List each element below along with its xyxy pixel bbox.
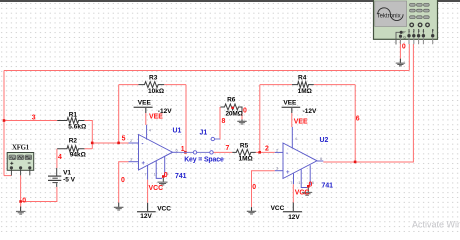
svg-text:5.6kΩ: 5.6kΩ [68, 123, 86, 130]
svg-text:VCC: VCC [271, 205, 285, 212]
svg-text:20MΩ: 20MΩ [226, 110, 243, 117]
VEE supply U1 [134, 99, 173, 125]
svg-text:10kΩ: 10kΩ [148, 88, 164, 95]
ground at R6 [237, 119, 246, 124]
svg-text:R2: R2 [69, 137, 78, 144]
svg-text:Activate Win: Activate Win [412, 220, 460, 230]
svg-text:7: 7 [226, 145, 230, 152]
node label 2 [265, 145, 269, 152]
wire R4 horizontal [260, 84, 355, 86]
wire XFG1 common to ground [20, 175, 22, 201]
wire R3 left drop to node 5 [118, 85, 120, 143]
wire U1 plus input to ground [119, 162, 129, 203]
ground under XFG1 [16, 203, 25, 214]
node label 4 [58, 154, 62, 161]
junction node 2 [258, 151, 261, 154]
wire R3 right drop to node 1 [185, 85, 187, 153]
watermark [412, 220, 460, 230]
svg-text:U2: U2 [320, 137, 329, 144]
node label 3 [32, 114, 36, 121]
svg-text:VCC: VCC [295, 190, 310, 197]
junction on R6 left [231, 107, 233, 109]
svg-text:8: 8 [222, 118, 226, 125]
ground under U2 plus [247, 207, 256, 214]
wire R5 to node 2 [256, 151, 275, 153]
wire U2 output to scope ch2 [323, 44, 413, 162]
VCC supply U2 [271, 184, 310, 221]
svg-text:VEE: VEE [294, 119, 308, 126]
wire R6 horizontal [241, 112, 243, 120]
svg-text:0: 0 [309, 182, 313, 189]
op-amp U1 pin numbers [130, 128, 179, 177]
node label 7 [226, 145, 230, 152]
wire R2 to V1 [56, 149, 58, 168]
node label 0 at R6 [243, 107, 247, 114]
wire U2 plus to ground [252, 171, 275, 207]
svg-text:741: 741 [175, 173, 187, 180]
top toolbar edge [0, 0, 460, 2]
svg-text:3: 3 [418, 29, 420, 33]
wire node 7 switch to R5 [213, 151, 232, 153]
VEE supply U2 [282, 99, 317, 127]
svg-text:5: 5 [122, 136, 126, 143]
node label 0 at XFG1 [22, 198, 26, 205]
label 741 U2 [322, 183, 334, 190]
svg-text:+: + [142, 161, 146, 167]
svg-text:2: 2 [413, 29, 415, 33]
svg-text:3: 3 [32, 114, 36, 121]
wire R6 left drop to switch [215, 107, 220, 139]
svg-text:12V: 12V [288, 214, 300, 221]
oscilloscope XSC1 [374, 0, 438, 45]
wire R3 top horizontal [119, 84, 186, 86]
battery V1 [48, 168, 76, 187]
switch J1 [179, 130, 224, 164]
wire scope ground [399, 39, 401, 58]
VCC supply U1 [137, 180, 171, 221]
node label 6 [356, 116, 360, 123]
node label 8 [222, 118, 226, 125]
svg-text:R1: R1 [69, 111, 78, 118]
svg-text:VCC: VCC [157, 205, 171, 212]
svg-text:Key = Space: Key = Space [184, 157, 224, 164]
node label 0 at U1 plus [121, 177, 125, 184]
label U2 [320, 137, 329, 144]
junction node 6 [354, 161, 357, 164]
svg-text:741: 741 [322, 183, 334, 190]
svg-text:U1: U1 [173, 128, 182, 135]
wire R4 right drop to node 6 [354, 85, 356, 162]
svg-text:VEE: VEE [283, 99, 297, 106]
function generator XFG1 [7, 144, 34, 175]
svg-text:VEE: VEE [149, 114, 163, 121]
U2 offset ground [302, 182, 312, 196]
svg-text:-5 V: -5 V [63, 176, 76, 183]
svg-text:R3: R3 [149, 75, 158, 82]
svg-text:1MΩ: 1MΩ [298, 88, 312, 95]
op-amp U1 [129, 125, 179, 180]
wire V1 bottom [21, 187, 57, 202]
wire XFG1 plus terminal [4, 175, 11, 177]
svg-text:1: 1 [408, 29, 410, 33]
svg-text:0: 0 [121, 177, 125, 184]
junction node 0 bottom [19, 200, 22, 203]
svg-text:0: 0 [243, 107, 247, 114]
label U1 [173, 128, 182, 135]
svg-text:R6: R6 [227, 96, 236, 103]
svg-text:XFG1: XFG1 [12, 144, 30, 151]
svg-text:VCC: VCC [149, 185, 164, 192]
svg-text:4: 4 [423, 29, 425, 33]
resistor R2 [57, 137, 86, 158]
svg-text:-: - [286, 151, 288, 157]
svg-text:0: 0 [402, 43, 406, 50]
svg-text:-12V: -12V [303, 108, 317, 115]
wire net 3 left vertical [3, 71, 5, 176]
op-amp U2 pin numbers [276, 136, 323, 185]
resistor R6 [220, 96, 242, 117]
svg-text:-: - [142, 142, 144, 148]
wire R1 right corner [84, 121, 92, 149]
svg-text:+: + [286, 170, 290, 176]
junction node 1 [184, 151, 187, 154]
svg-text:6: 6 [356, 116, 360, 123]
svg-text:R4: R4 [298, 75, 307, 82]
wire node 5 horizontal [92, 142, 128, 144]
svg-text:1MΩ: 1MΩ [239, 155, 253, 162]
node label 5 [122, 136, 126, 143]
junction node 3 [3, 119, 6, 122]
resistor R1 [57, 111, 86, 130]
node label 1 [181, 146, 185, 153]
wire node 3 horizontal [4, 120, 57, 122]
wire top horizontal to scope ch1 [4, 70, 409, 72]
svg-text:0: 0 [252, 184, 256, 191]
svg-text:2: 2 [265, 145, 269, 152]
svg-text:12V: 12V [140, 213, 152, 220]
junction node 5 right [117, 142, 120, 145]
svg-text:0: 0 [164, 172, 168, 179]
op-amp U2 [275, 127, 324, 188]
resistor R3 [138, 75, 164, 95]
ground under U1 plus [114, 203, 123, 210]
svg-text:94kΩ: 94kΩ [70, 152, 86, 159]
ground at scope [396, 59, 405, 66]
junction node 5 left [91, 142, 94, 145]
U1 offset ground [158, 172, 168, 185]
svg-text:Tektronix: Tektronix [377, 13, 401, 19]
resistor R5 [232, 143, 255, 163]
resistor R4 [292, 75, 314, 95]
wire node 2 up to R4 [259, 85, 261, 153]
svg-text:G: G [403, 35, 406, 39]
node label 0 at scope [402, 43, 406, 50]
svg-text:4: 4 [58, 154, 62, 161]
svg-text:VEE: VEE [138, 99, 152, 106]
svg-text:0: 0 [22, 198, 26, 205]
svg-text:R5: R5 [240, 143, 249, 150]
wire scope ch1 drop [408, 44, 410, 71]
svg-text:J1: J1 [200, 130, 208, 137]
label 741 U1 [175, 173, 187, 180]
node label 0 at U2 plus [252, 184, 256, 191]
